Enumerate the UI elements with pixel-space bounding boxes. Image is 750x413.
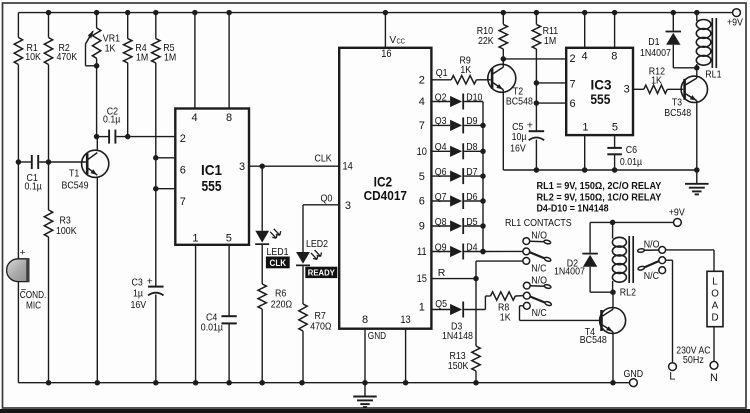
diode D9 row Q3 <box>431 115 483 133</box>
svg-text:D9: D9 <box>466 115 477 127</box>
svg-text:D: D <box>711 312 718 323</box>
svg-text:CLK: CLK <box>315 153 332 165</box>
svg-text:0.1µ: 0.1µ <box>103 113 120 125</box>
svg-text:1K: 1K <box>460 64 471 76</box>
svg-text:BC548: BC548 <box>506 96 533 108</box>
capacitor C2 0.1u <box>94 105 175 143</box>
svg-text:D7: D7 <box>466 166 477 178</box>
svg-text:MIC: MIC <box>26 301 41 312</box>
label 230V AC 50Hz <box>676 344 711 366</box>
svg-text:1: 1 <box>192 232 198 244</box>
capacitor C3 1u 16V <box>131 275 164 382</box>
svg-text:D4-D10 = 1N4148: D4-D10 = 1N4148 <box>537 203 609 215</box>
resistor R4 1M <box>124 13 149 137</box>
svg-text:Q7: Q7 <box>435 191 447 203</box>
svg-text:14: 14 <box>342 161 352 173</box>
svg-text:6: 6 <box>419 196 425 208</box>
svg-text:9: 9 <box>419 221 425 233</box>
svg-text:D10: D10 <box>466 91 482 103</box>
svg-text:GND: GND <box>624 368 644 380</box>
svg-text:BC549: BC549 <box>62 179 89 191</box>
transistor T2 BC548 <box>488 56 533 170</box>
svg-text:13: 13 <box>400 314 410 326</box>
svg-text:LED1: LED1 <box>267 246 289 258</box>
transistor T4 BC548 <box>580 292 626 383</box>
resistor R6 220ohm <box>258 284 292 383</box>
svg-text:CC: CC <box>397 39 406 46</box>
diode D3 1N4148 <box>442 302 485 342</box>
svg-text:N: N <box>710 372 718 384</box>
svg-text:N/O: N/O <box>644 239 660 251</box>
svg-text:N/C: N/C <box>644 270 660 282</box>
RL1 contact N/C (set2) to T4 <box>520 302 601 320</box>
wire load to N <box>713 327 715 362</box>
diode D6 row Q7 <box>431 191 483 209</box>
label CLK box <box>266 257 290 269</box>
svg-text:1: 1 <box>419 302 425 314</box>
svg-text:D8: D8 <box>466 141 477 153</box>
svg-text:220Ω: 220Ω <box>271 299 292 311</box>
resistor R3 100K <box>44 162 76 383</box>
resistor R2 470K <box>44 13 77 162</box>
svg-text:C3: C3 <box>132 276 143 288</box>
svg-text:1N4007: 1N4007 <box>554 265 585 277</box>
svg-text:7: 7 <box>570 78 576 90</box>
diode D5 row Q8 <box>431 216 483 234</box>
svg-text:O: O <box>711 288 719 299</box>
wire IC3 pin 1 <box>584 135 586 170</box>
svg-text:D6: D6 <box>466 191 477 203</box>
wire IC3 pin 5 <box>614 135 616 148</box>
wire R reset node <box>431 267 478 281</box>
transistor T3 BC548 <box>664 68 707 170</box>
svg-text:1N4007: 1N4007 <box>640 47 671 59</box>
svg-text:Q3: Q3 <box>435 115 447 127</box>
transistor T1 BC549 <box>62 137 109 383</box>
svg-text:5: 5 <box>612 122 618 134</box>
load box <box>707 271 723 326</box>
resistor R9 1K <box>451 55 491 84</box>
IC2 CD4017 counter <box>339 48 431 329</box>
wire diode cathode bus <box>480 102 486 255</box>
svg-text:10K: 10K <box>25 51 41 63</box>
svg-text:C6: C6 <box>626 144 637 156</box>
wire +9V top rail <box>18 10 732 16</box>
svg-text:22K: 22K <box>478 35 494 47</box>
svg-text:Q6: Q6 <box>435 166 447 178</box>
potentiometer VR1 1K <box>86 13 121 137</box>
diode D1 1N4007 <box>640 13 700 71</box>
svg-text:Q1: Q1 <box>436 67 448 79</box>
svg-text:RL2: RL2 <box>620 287 636 299</box>
diode D8 row Q4 <box>431 141 483 159</box>
svg-text:2: 2 <box>180 133 186 145</box>
IC3 555 timer <box>566 48 633 135</box>
wire IC3 pin 7 <box>534 80 567 86</box>
label READY box <box>305 267 337 278</box>
svg-text:3: 3 <box>239 161 245 173</box>
wire IC1 pin 4 <box>194 13 196 109</box>
svg-text:IC1: IC1 <box>201 162 222 179</box>
svg-text:READY: READY <box>308 268 335 278</box>
capacitor C1 0.1u <box>16 155 86 192</box>
svg-text:RL1: RL1 <box>705 68 721 80</box>
RL1 contact N/O (set2) <box>523 275 551 289</box>
wire RL2 pole to L <box>666 260 673 363</box>
svg-text:1M: 1M <box>136 52 148 64</box>
svg-text:11: 11 <box>417 246 427 258</box>
svg-text:10µ: 10µ <box>512 131 527 143</box>
svg-text:16V: 16V <box>131 299 147 311</box>
RL2 contact N/O <box>637 239 665 254</box>
svg-text:8: 8 <box>362 314 368 326</box>
svg-text:1N4148: 1N4148 <box>442 330 473 342</box>
svg-text:8: 8 <box>226 112 232 124</box>
RL1 contact N/O (set1) <box>523 230 551 245</box>
svg-text:LED2: LED2 <box>306 238 328 250</box>
svg-text:CLK: CLK <box>270 258 287 268</box>
svg-text:N/C: N/C <box>532 307 548 319</box>
svg-text:0.01µ: 0.01µ <box>201 322 223 334</box>
svg-text:Q2: Q2 <box>435 91 447 103</box>
RL1 contact N/C (set1) <box>523 258 547 275</box>
relay coil RL2 <box>612 222 636 298</box>
svg-text:1M: 1M <box>544 35 556 47</box>
svg-text:R: R <box>438 267 446 279</box>
capacitor C5 10u 16V <box>510 120 544 170</box>
wire Q5 node <box>431 298 450 310</box>
svg-text:V: V <box>390 35 397 46</box>
ground symbol (IC3 section) <box>685 170 709 194</box>
wire IC1 pin 8 <box>228 13 230 109</box>
svg-text:2: 2 <box>570 53 576 65</box>
svg-text:3: 3 <box>624 84 630 96</box>
wire IC2 pin 16 Vcc <box>385 13 405 48</box>
diode D10 row Q2 <box>431 91 483 109</box>
svg-text:BC548: BC548 <box>664 107 691 119</box>
svg-text:6: 6 <box>180 165 186 177</box>
notes relay values <box>537 180 662 214</box>
svg-text:16: 16 <box>381 48 391 60</box>
svg-text:100K: 100K <box>56 225 77 237</box>
wire IC2 pin 13 <box>405 329 407 383</box>
capacitor C4 0.01u <box>201 312 237 383</box>
wire Q1 node <box>431 67 451 80</box>
wire RL2 N/O to load <box>666 250 714 271</box>
svg-text:5: 5 <box>419 171 425 183</box>
wire IC1 pin 5 <box>228 245 230 316</box>
svg-text:0.1µ: 0.1µ <box>25 180 42 192</box>
terminal +9V (mid right) <box>669 207 685 227</box>
svg-text:D4: D4 <box>466 241 477 253</box>
wire IC1 pin 6 <box>153 155 175 161</box>
resistor R5 1M <box>152 13 177 287</box>
svg-text:4: 4 <box>419 96 425 108</box>
svg-text:CD4017: CD4017 <box>364 188 407 203</box>
resistor R1 10K <box>14 13 41 162</box>
wire CLK node <box>249 153 339 169</box>
svg-text:Q9: Q9 <box>435 241 447 253</box>
svg-text:4: 4 <box>582 51 588 63</box>
svg-text:N/O: N/O <box>531 275 547 287</box>
wire Q0 node <box>303 193 339 252</box>
svg-text:IC2: IC2 <box>374 173 393 189</box>
svg-text:BC548: BC548 <box>580 334 607 346</box>
svg-text:Q8: Q8 <box>435 216 447 228</box>
svg-text:150K: 150K <box>448 360 469 372</box>
svg-text:4: 4 <box>192 112 198 124</box>
svg-text:8: 8 <box>611 51 617 63</box>
RL1 contact pole (set1) <box>480 248 551 262</box>
diode D2 1N4007 <box>554 222 616 295</box>
svg-text:1K: 1K <box>105 43 116 55</box>
label RL1 CONTACTS <box>505 217 572 229</box>
svg-text:555: 555 <box>202 178 222 195</box>
svg-text:0.01µ: 0.01µ <box>620 156 642 168</box>
svg-text:A: A <box>712 300 719 311</box>
svg-text:15: 15 <box>417 273 427 285</box>
wire IC1 pin 7 <box>153 186 175 192</box>
svg-text:16V: 16V <box>510 143 526 155</box>
svg-text:Q4: Q4 <box>435 141 447 153</box>
svg-text:+: + <box>147 275 153 287</box>
diode D4 row Q9 <box>431 241 483 259</box>
op-amp U IC1 555 timer <box>175 109 249 245</box>
LED1 <box>255 166 289 284</box>
svg-text:T1: T1 <box>69 168 79 180</box>
svg-text:1K: 1K <box>500 312 511 324</box>
terminal GND <box>624 368 644 386</box>
svg-text:470Ω: 470Ω <box>310 321 331 333</box>
LED2 <box>296 238 328 304</box>
resistor R13 150K <box>448 346 480 383</box>
wire D3 to R8 <box>485 296 490 310</box>
svg-text:2: 2 <box>419 74 425 86</box>
wire IC1 pin 1 <box>195 245 197 383</box>
svg-text:10: 10 <box>417 146 427 158</box>
terminal +9V (top right) <box>727 9 743 29</box>
svg-text:L: L <box>712 276 718 287</box>
resistor R12 1K <box>633 65 683 93</box>
ground symbol (bottom rail) <box>353 383 377 407</box>
svg-text:+9V: +9V <box>669 207 685 219</box>
wire IC3 pin 6 <box>534 100 567 106</box>
svg-text:7: 7 <box>180 196 186 208</box>
svg-text:RL2 = 9V, 150Ω, 1C/O RELAY: RL2 = 9V, 150Ω, 1C/O RELAY <box>537 191 662 203</box>
resistor R10 22K <box>477 13 508 59</box>
svg-text:Q0: Q0 <box>321 193 333 205</box>
svg-text:7: 7 <box>419 120 425 132</box>
RL2 contact pole <box>638 257 666 271</box>
wire ground bottom rail <box>18 380 629 386</box>
svg-text:6: 6 <box>570 98 576 110</box>
svg-text:+: + <box>527 120 533 132</box>
svg-text:1K: 1K <box>651 75 662 87</box>
svg-text:1: 1 <box>582 122 588 134</box>
terminal L <box>669 363 677 383</box>
capacitor C6 0.01u <box>607 144 642 170</box>
wire IC3 ground line <box>503 167 699 173</box>
resistor R8 1K <box>491 292 524 324</box>
svg-text:50Hz: 50Hz <box>683 354 704 366</box>
RL2 contact N/C <box>644 267 666 282</box>
resistor R11 1M <box>532 13 558 132</box>
svg-text:COND.: COND. <box>20 290 47 301</box>
wire IC3 pin 2 <box>503 58 566 60</box>
wire IC3 pin 8 <box>614 13 616 48</box>
terminal N <box>710 361 718 384</box>
svg-text:+: + <box>20 248 26 259</box>
wire IC3 pin 4 <box>584 13 586 48</box>
wire reset to RL1 N/C <box>476 261 523 279</box>
wire reset to R13 <box>475 279 477 346</box>
svg-text:470K: 470K <box>57 51 78 63</box>
svg-text:1µ: 1µ <box>133 288 143 300</box>
svg-text:Q5: Q5 <box>435 298 447 310</box>
relay coil RL1 <box>696 13 721 81</box>
svg-text:N/O: N/O <box>531 230 547 242</box>
svg-text:1M: 1M <box>164 52 176 64</box>
svg-text:5: 5 <box>226 232 232 244</box>
resistor R7 470ohm <box>299 304 332 383</box>
svg-text:555: 555 <box>590 91 610 107</box>
svg-text:GND: GND <box>368 331 386 342</box>
condenser microphone <box>7 162 47 383</box>
svg-text:L: L <box>669 371 675 383</box>
wire IC2 pin 8 GND <box>365 329 386 383</box>
svg-text:RL1 CONTACTS: RL1 CONTACTS <box>505 217 572 229</box>
diode D7 row Q6 <box>431 166 483 184</box>
svg-text:3: 3 <box>345 200 351 212</box>
svg-text:+9V: +9V <box>727 17 743 29</box>
wire +9V relay feed <box>590 220 673 226</box>
svg-text:N/C: N/C <box>531 263 547 275</box>
svg-text:D5: D5 <box>466 216 477 228</box>
RL1 contact pole (set2) <box>523 292 551 306</box>
